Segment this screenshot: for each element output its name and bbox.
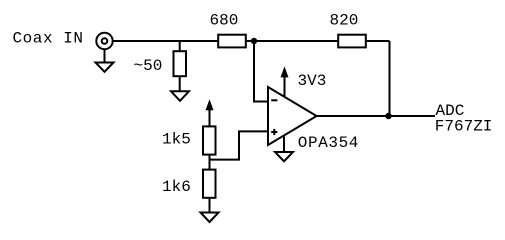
op-amp U1 [268, 87, 317, 145]
wire op-amp to ground [283, 137, 285, 153]
wire main top [113, 40, 390, 42]
svg-text:820: 820 [330, 12, 359, 30]
resistor 820 [338, 35, 366, 48]
node junction at output [385, 113, 391, 119]
svg-text:3V3: 3V3 [298, 72, 327, 90]
wire stub down to ~50 and its ground [179, 41, 181, 91]
resistor 1k5 [203, 126, 216, 154]
op-amp plus sign [271, 129, 277, 135]
power arrow 3V3 (op-amp supply) [281, 66, 289, 97]
connector J1 coax [96, 33, 112, 49]
ground (under ~50) [171, 91, 189, 101]
svg-text:1k5: 1k5 [162, 131, 191, 149]
wire divider rail [209, 126, 211, 212]
svg-text:F767ZI: F767ZI [435, 118, 493, 136]
power arrow 3V3 (divider top) [206, 99, 214, 126]
wire connector to ground [104, 49, 106, 62]
svg-text:Coax IN: Coax IN [13, 30, 84, 48]
wire divider tap to non-inverting input [210, 131, 269, 159]
svg-text:~50: ~50 [134, 57, 163, 75]
svg-text:680: 680 [210, 12, 239, 30]
resistor ~50 [174, 51, 187, 76]
svg-text:1k6: 1k6 [162, 178, 191, 196]
ground (under op-amp) [275, 152, 293, 161]
wire output [317, 115, 435, 117]
wire right rail down to output [389, 41, 391, 116]
op-amp minus sign [271, 99, 277, 101]
ground (under 1k6) [201, 213, 219, 223]
node junction at feedback tap [251, 38, 257, 44]
ground (under connector) [96, 63, 114, 72]
resistor 680 [218, 35, 246, 48]
resistor 1k6 [203, 170, 216, 198]
svg-text:OPA354: OPA354 [298, 134, 359, 152]
wire junction down to inverting input [254, 41, 268, 102]
